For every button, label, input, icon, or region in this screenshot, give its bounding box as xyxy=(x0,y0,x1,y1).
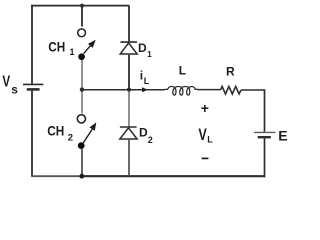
svg-text:i: i xyxy=(140,69,143,83)
svg-text:E: E xyxy=(278,127,287,143)
svg-text:s: s xyxy=(11,82,18,96)
svg-text:CH: CH xyxy=(47,123,64,139)
svg-text:D: D xyxy=(139,125,148,139)
svg-text:1: 1 xyxy=(147,50,152,59)
svg-text:D: D xyxy=(138,41,147,55)
svg-text:2: 2 xyxy=(148,135,153,145)
svg-text:L: L xyxy=(144,76,150,86)
svg-text:L: L xyxy=(179,64,186,78)
svg-text:V: V xyxy=(2,74,10,91)
svg-text:V: V xyxy=(198,126,206,144)
svg-text:+: + xyxy=(201,100,209,116)
svg-text:R: R xyxy=(226,65,235,79)
svg-text:L: L xyxy=(207,134,213,144)
svg-text:2: 2 xyxy=(68,133,73,144)
svg-text:CH: CH xyxy=(48,38,65,54)
svg-text:1: 1 xyxy=(70,47,75,57)
